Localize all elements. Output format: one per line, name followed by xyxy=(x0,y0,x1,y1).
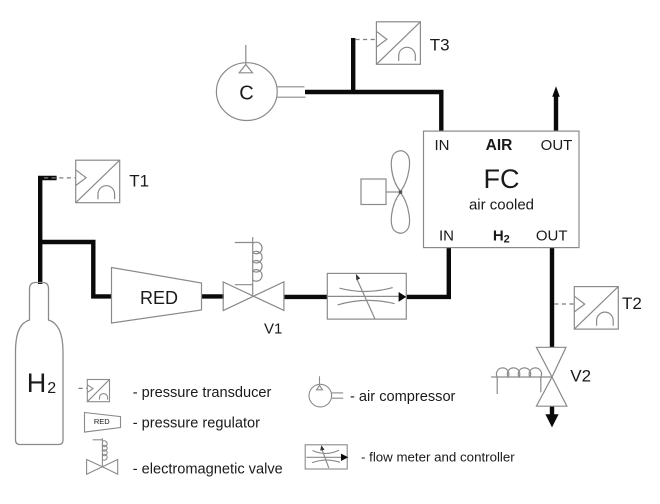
svg-text:IN: IN xyxy=(435,137,450,154)
svg-text:T2: T2 xyxy=(622,294,642,313)
svg-text:AIR: AIR xyxy=(486,137,513,154)
svg-text:air cooled: air cooled xyxy=(469,197,534,214)
svg-text:RED: RED xyxy=(94,417,110,426)
svg-text:T3: T3 xyxy=(430,36,450,55)
svg-text:V2: V2 xyxy=(570,367,591,386)
svg-text:- pressure regulator: - pressure regulator xyxy=(133,415,260,431)
svg-text:C: C xyxy=(239,83,253,105)
svg-text:T1: T1 xyxy=(129,172,149,191)
svg-text:V1: V1 xyxy=(264,321,282,338)
svg-text:- pressure transducer: - pressure transducer xyxy=(133,385,272,401)
svg-text:H2: H2 xyxy=(493,228,510,246)
svg-text:H2: H2 xyxy=(27,368,57,398)
svg-text:OUT: OUT xyxy=(541,137,573,154)
svg-text:FC: FC xyxy=(484,164,520,194)
svg-text:RED: RED xyxy=(140,288,178,308)
svg-text:- electromagnetic valve: - electromagnetic valve xyxy=(133,462,283,478)
svg-text:- flow meter and controller: - flow meter and controller xyxy=(361,450,515,465)
svg-text:OUT: OUT xyxy=(536,228,568,245)
svg-text:IN: IN xyxy=(439,228,454,245)
svg-text:- air compressor: - air compressor xyxy=(350,389,456,405)
